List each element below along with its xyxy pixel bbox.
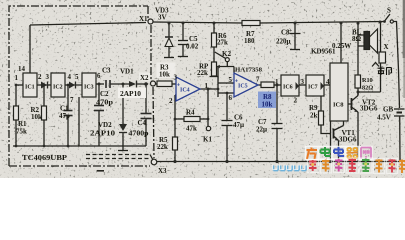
svg-text:10k: 10k: [262, 101, 273, 109]
svg-text:220µ: 220µ: [276, 38, 291, 46]
svg-text:+: +: [289, 28, 292, 34]
svg-text:4: 4: [68, 73, 72, 81]
svg-text:7: 7: [256, 76, 260, 84]
svg-text:IC6: IC6: [283, 85, 293, 91]
svg-text:47p: 47p: [59, 112, 70, 120]
svg-text:2: 2: [294, 97, 298, 105]
svg-text:+: +: [177, 83, 180, 89]
svg-text:1: 1: [205, 82, 209, 90]
svg-text:7: 7: [70, 96, 74, 104]
svg-text:180: 180: [244, 37, 255, 45]
svg-text:C2: C2: [100, 90, 109, 98]
svg-text:S: S: [387, 7, 391, 15]
svg-text:+: +: [235, 79, 238, 85]
svg-text:TC4069UBP: TC4069UBP: [22, 153, 67, 162]
svg-text:3: 3: [46, 73, 50, 81]
svg-text:14: 14: [18, 65, 26, 73]
svg-text:2AP10: 2AP10: [120, 90, 142, 98]
svg-text:3DG6: 3DG6: [360, 105, 378, 113]
svg-text:47k: 47k: [186, 125, 197, 133]
svg-text:C3: C3: [102, 67, 111, 75]
svg-text:3DG6: 3DG6: [339, 136, 357, 144]
svg-text:X3: X3: [158, 167, 167, 175]
svg-text:1: 1: [275, 78, 279, 86]
svg-text:2: 2: [169, 97, 173, 105]
svg-text:8Ω: 8Ω: [352, 35, 362, 43]
svg-text:22k: 22k: [157, 143, 168, 151]
svg-text:HA17358: HA17358: [235, 67, 262, 74]
svg-text:22k: 22k: [197, 69, 208, 77]
svg-text:3V: 3V: [158, 14, 167, 22]
svg-text:75k: 75k: [16, 128, 27, 136]
svg-text:X2: X2: [140, 74, 149, 82]
svg-text:IC5: IC5: [238, 84, 248, 90]
svg-text:3: 3: [174, 74, 178, 82]
svg-text:4700p: 4700p: [129, 130, 149, 138]
svg-text:IC2: IC2: [53, 85, 63, 91]
svg-text:2AP10: 2AP10: [90, 130, 116, 138]
svg-text:0.02: 0.02: [186, 43, 199, 51]
svg-text:IC4: IC4: [180, 88, 190, 94]
svg-text:2k: 2k: [310, 112, 318, 120]
svg-text:10k: 10k: [31, 113, 42, 121]
svg-text:4.5V: 4.5V: [377, 114, 391, 122]
svg-text:5: 5: [75, 73, 79, 81]
svg-text:VD1: VD1: [120, 68, 134, 76]
svg-text:GB: GB: [383, 106, 393, 114]
svg-text:5: 5: [229, 76, 233, 84]
svg-text:47µ: 47µ: [233, 121, 244, 129]
svg-text:2: 2: [38, 73, 42, 81]
svg-text:R4: R4: [186, 109, 195, 117]
svg-text:82Ω: 82Ω: [362, 85, 373, 92]
svg-text:27k: 27k: [217, 39, 228, 47]
svg-text:6: 6: [229, 94, 233, 102]
svg-text:X1: X1: [139, 15, 148, 23]
svg-text:IC8: IC8: [333, 102, 344, 109]
svg-text:IC1: IC1: [25, 85, 35, 91]
svg-text:IC3: IC3: [84, 85, 94, 91]
svg-text:K1: K1: [203, 136, 212, 144]
svg-text:R10: R10: [362, 77, 373, 84]
svg-text:0.25W: 0.25W: [332, 42, 351, 50]
svg-text:VD2: VD2: [98, 121, 112, 129]
svg-text:10k: 10k: [159, 71, 170, 79]
svg-text:C4: C4: [138, 119, 147, 127]
svg-text:3: 3: [301, 78, 305, 86]
svg-text:X: X: [384, 43, 389, 51]
svg-text:K2: K2: [222, 50, 231, 58]
svg-text:470p: 470p: [96, 99, 113, 107]
svg-text:22µ: 22µ: [256, 126, 267, 134]
svg-text:IC7: IC7: [308, 85, 318, 91]
svg-text:6: 6: [97, 72, 101, 80]
svg-text:1: 1: [15, 74, 19, 82]
svg-text:4: 4: [326, 78, 330, 86]
